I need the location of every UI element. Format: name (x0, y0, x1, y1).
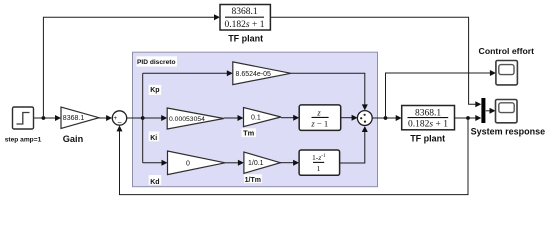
TF plant (right) block (402, 106, 455, 130)
wire: TF right output to mux bottom input (455, 115, 482, 121)
svg-text:8368.1: 8368.1 (231, 7, 257, 17)
PID discreto area background (133, 52, 378, 187)
svg-text:8.6524e-05: 8.6524e-05 (236, 71, 272, 78)
svg-text:+: + (113, 115, 117, 122)
junction: control effort branch (384, 116, 388, 120)
wire: branch up to TF plant (top) (43, 14, 220, 118)
junction: PID input branch (141, 116, 145, 120)
wire: feedback to sum1 bottom (117, 118, 469, 195)
svg-text:0.182s + 1: 0.182s + 1 (225, 20, 265, 30)
gain Tm triangle 0.1 (244, 108, 282, 127)
wire: Kp gain to sum2 top (291, 73, 368, 110)
gain G1 triangle (61, 107, 99, 128)
svg-text:1/0.1: 1/0.1 (248, 160, 264, 167)
svg-text:Gain: Gain (63, 134, 84, 144)
svg-text:System response: System response (471, 126, 546, 136)
wire: sum2 to TF plant (right) (372, 115, 402, 121)
svg-text:Kd: Kd (150, 179, 159, 186)
svg-text:TF plant: TF plant (410, 134, 445, 144)
discrete TF block (1-z^-1)/1 (299, 150, 340, 175)
step source block (13, 107, 34, 129)
svg-text:0.182s + 1: 0.182s + 1 (408, 120, 448, 130)
wire: branch up to Control effort scope (386, 70, 496, 118)
junction: step output branch (42, 116, 46, 120)
scope: System response (496, 100, 518, 123)
gain Kd triangle 0 (168, 151, 226, 175)
TF plant (top) block (220, 5, 270, 31)
svg-text:Control effort: Control effort (479, 46, 535, 56)
wire: (1-z^-1)/1 to sum2 bottom (340, 126, 368, 163)
wire: branch vertical Kp/Kd (142, 73, 144, 163)
scope: Control effort (496, 61, 518, 85)
svg-text:PID discreto: PID discreto (137, 59, 175, 66)
junction: feedback branch (466, 116, 470, 120)
svg-text:0: 0 (186, 160, 190, 167)
wire: Ki gain to Tm gain (224, 115, 244, 121)
wire: branch to Kp gain (143, 70, 233, 76)
label Kd (149, 175, 162, 186)
svg-text:–: – (118, 119, 122, 126)
svg-text:z: z (316, 107, 321, 117)
wire: sum1 to Ki gain (with branch junction) (127, 115, 168, 121)
label Ki (149, 132, 160, 142)
svg-text:z − 1: z − 1 (310, 118, 328, 128)
label 1/Tm (244, 174, 262, 184)
wire: gain to sum1 (99, 115, 112, 121)
wire: step to gain (34, 115, 62, 121)
wire: Kd gain to 1/Tm gain (225, 160, 244, 166)
PID discreto area label (137, 56, 178, 66)
svg-text:8368.1: 8368.1 (415, 108, 441, 118)
svg-text:0.1: 0.1 (251, 115, 261, 122)
svg-text:Ki: Ki (150, 135, 157, 142)
discrete TF block z/(z-1) (299, 105, 341, 130)
gain 1/Tm triangle 1/0.1 (244, 152, 281, 173)
gain Ki triangle 0.00053054 (167, 108, 224, 129)
wire: TF plant (top) output to mux top input (270, 17, 481, 107)
svg-text:TF plant: TF plant (228, 33, 263, 43)
svg-text:8368.1: 8368.1 (63, 115, 85, 122)
label Tm (242, 128, 257, 137)
wire: Tm gain to discrete TF z/(z-1) (281, 115, 299, 121)
svg-text:1/Tm: 1/Tm (245, 177, 261, 184)
gain Kp triangle 8.6524e-05 (233, 62, 291, 85)
mux (481, 98, 495, 123)
svg-text:0.00053054: 0.00053054 (169, 116, 205, 123)
sum junction S1 (112, 111, 126, 126)
svg-text:step amp=1: step amp=1 (5, 136, 42, 143)
wire: z/(z-1) to sum2 left (341, 115, 358, 121)
svg-text:Kp: Kp (150, 87, 159, 94)
svg-text:1: 1 (317, 164, 321, 173)
svg-text:Tm: Tm (243, 128, 255, 137)
wire: 1/Tm to discrete TF (1-z^-1)/1 (280, 160, 299, 166)
label Kp (149, 85, 162, 95)
sum junction S2 (357, 111, 372, 126)
wire: branch to Kd gain (143, 160, 168, 166)
